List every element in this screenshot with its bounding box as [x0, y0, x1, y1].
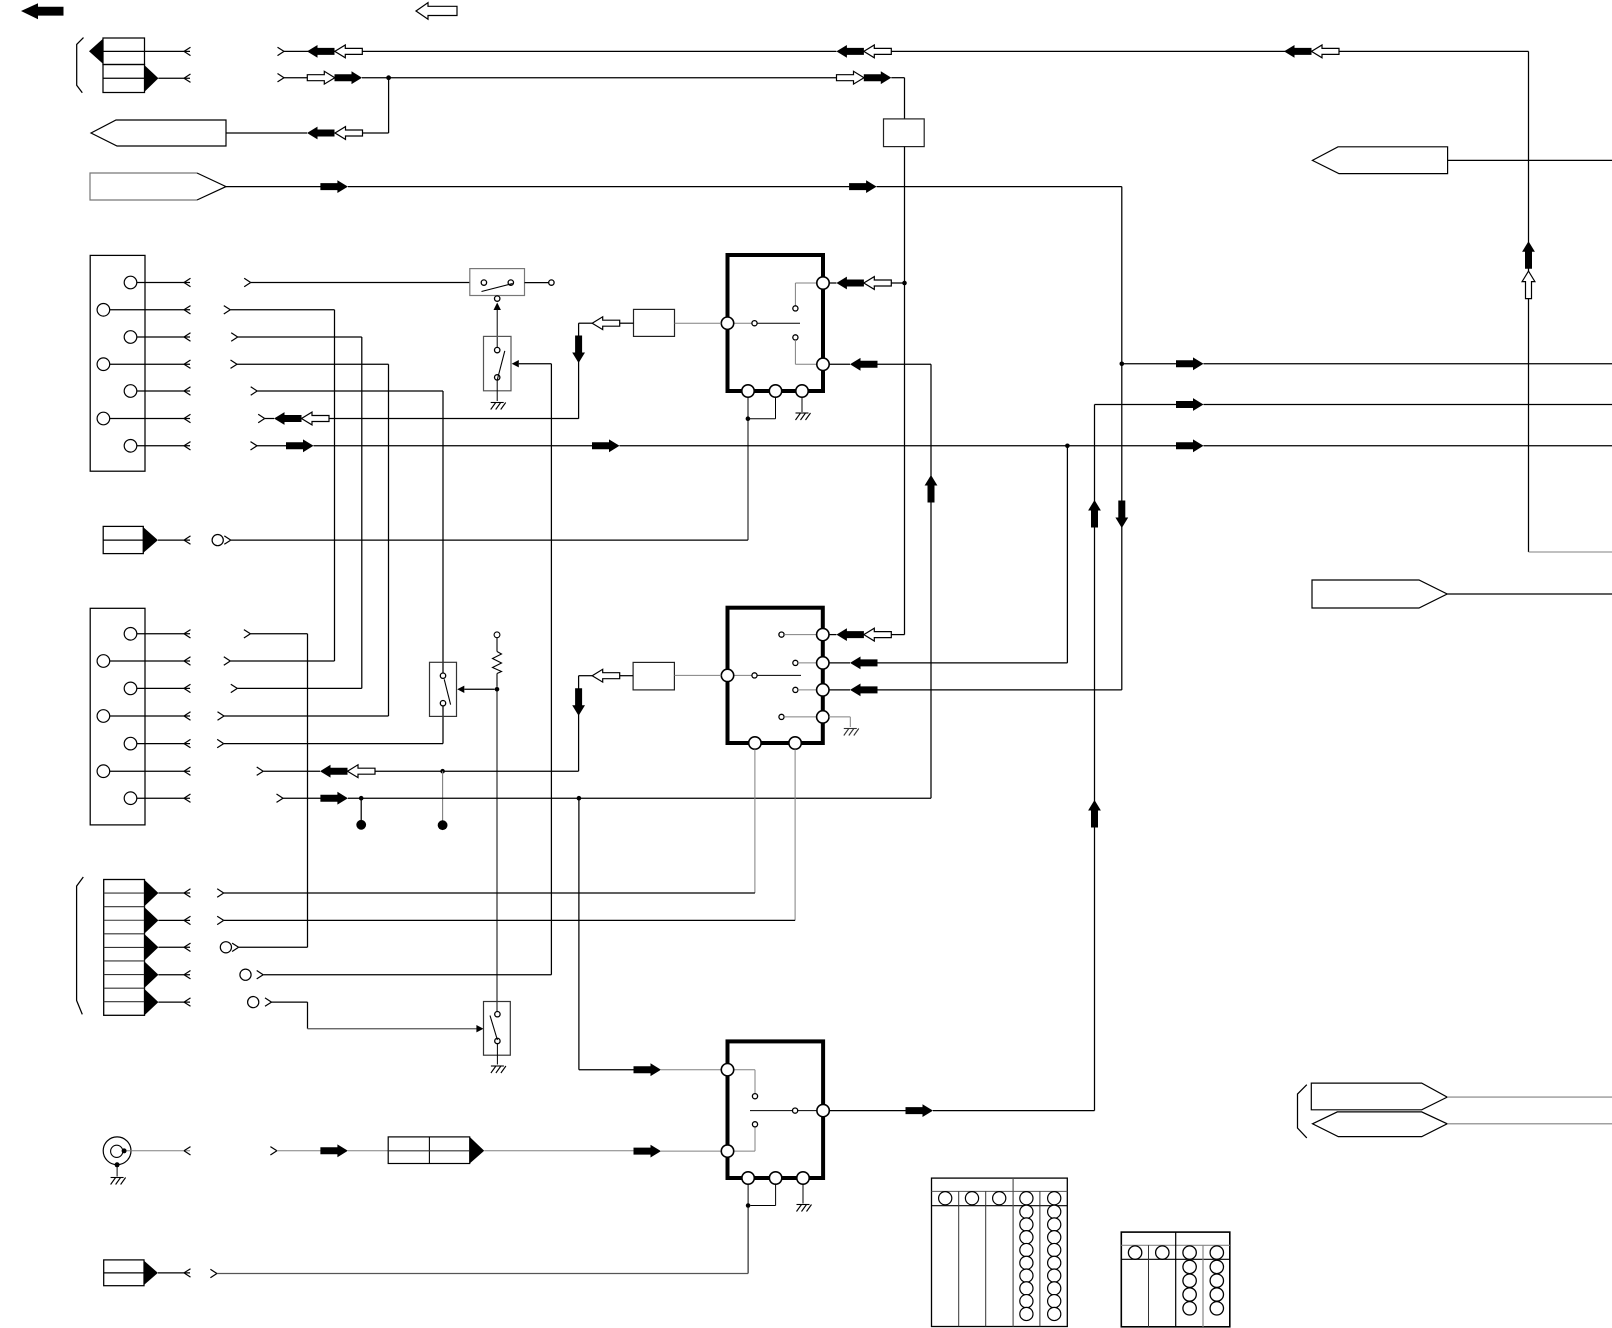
wire J2-6 from K1 input filter branch [258, 412, 578, 425]
off-page flow arrow (open, from next sheet) [416, 3, 457, 20]
pin table T1 [932, 1178, 1068, 1326]
relay K2 case [728, 608, 823, 743]
connector J5 (10-way, black wedges) [104, 880, 191, 1016]
connector bracket P5/P6 [1298, 1085, 1307, 1138]
ground at J6 [111, 1178, 126, 1185]
wire J2-5 via switch S4 to J3-5 [217, 387, 443, 748]
off-page flow arrow (solid, to previous sheet) [21, 3, 64, 19]
relay K3 contact internals [734, 1070, 817, 1151]
ground below S2 [491, 403, 506, 410]
wire column from F1 down to relay K2 pin 1 (node at K1 pin 1) [830, 147, 907, 641]
wire K3 coil pins to J8 [210, 1184, 775, 1278]
relay K2 pin 3 [817, 684, 829, 696]
wire P6 to sheet edge [1447, 1123, 1612, 1125]
wire S4 control from R1 node [457, 686, 499, 693]
wire K3 output to riser x1095 and row 404 [829, 398, 1612, 1117]
resistor R1 [493, 632, 502, 687]
wire P3 to sheet edge [1448, 159, 1612, 161]
filter box F2 (K1 input) [634, 309, 675, 336]
coax connector J6 [103, 1137, 131, 1177]
relay K1 pin 2 [817, 358, 829, 370]
wire J2-4 via bus to J3-4 [218, 360, 389, 720]
wire K2 coil pin B to big connector row 2 [217, 749, 795, 924]
pin table T2 [1121, 1232, 1230, 1327]
connector J1-A (to unit, black wedge left) [89, 38, 191, 65]
connector J1-B (from unit, black wedge right) [103, 65, 191, 93]
wire riser (J3-7 node) to relay K3 pin 1 [579, 798, 721, 1076]
ground at K2 pin 4 [829, 717, 859, 736]
wire K1 coil pins to supply node [746, 397, 776, 540]
ground at K1 pin G [796, 397, 811, 420]
wire J3-1 via bus to big connector row 3 [220, 630, 307, 953]
connector bracket J1 [77, 38, 84, 93]
relay K3 coil pins [742, 1172, 809, 1184]
wire S2 control from bus x551 [240, 360, 552, 980]
connector J8 (2-pin with wedge) [104, 1260, 191, 1286]
relay K2 coil pins [749, 737, 802, 749]
DC-DC box F3 (K2 input) [633, 662, 674, 690]
wire K2 coil pin A to big connector row 1 [217, 749, 755, 897]
relay K2 contact internals [734, 632, 817, 720]
relay K2 common pin [721, 669, 733, 681]
relay K2 pin 4 (gnd) [817, 711, 829, 723]
inline connector J7 (2-pin with wedge) [388, 1137, 484, 1164]
relay K1 pin 1 [817, 277, 829, 289]
wire F2 to K1 common [675, 322, 722, 324]
connector J3 (7-pin, mid left) [90, 608, 190, 825]
wire J3-6 from relay K2 aux (down-arrow branch) [257, 765, 579, 830]
wire P1 to node at top bus [226, 75, 391, 139]
relay K2 pin 2 [817, 657, 829, 669]
switch S2 (thermal contact to ground) [484, 336, 512, 401]
wire K2 pin2 to output node (row 446 branch) [829, 446, 1067, 670]
relay K3 case [728, 1041, 824, 1178]
wire P5 to sheet edge [1447, 1096, 1612, 1098]
wire into F3 (open arrow) from J3-6 riser [572, 669, 633, 771]
wire J2-2 via bus to J3-2 [224, 306, 335, 666]
connector bracket J5 [77, 877, 84, 1014]
switch S1 (relay contact, NO) [470, 269, 554, 302]
wire into F2 (open arrow) from J2-6 riser [572, 317, 633, 419]
ferrite/fuse box F1 [884, 119, 925, 147]
wire J6 to inline connector J7 [127, 1144, 389, 1157]
cable flag P1 (point-left) [91, 120, 226, 146]
wire R1 node down to switch S3 [496, 689, 498, 1011]
wire P4 to sheet edge [1447, 593, 1612, 595]
relay K1 case [728, 255, 824, 391]
wire J7 to relay K3 pin 2 [484, 1145, 721, 1158]
supply row to K1 coil (from J4) [158, 535, 748, 546]
relay K1 common pin [721, 317, 733, 329]
connector J2 (7-pin, upper left) [90, 255, 190, 471]
wire S1 actuator link (arrow up) [494, 303, 501, 348]
cable flag P6 (double point) [1313, 1112, 1448, 1137]
wire node K2-feed branch to sheet edge (row 364) [1122, 357, 1612, 370]
wire J2-3 via bus to J3-3 [231, 333, 362, 693]
relay K3 pin 2 [721, 1145, 733, 1157]
wire K1 pin1 arrows from node column [829, 277, 904, 290]
ground at K3 pin G [797, 1184, 812, 1211]
cable flag P3 (top right, point-left) [1312, 147, 1447, 174]
relay K3 pin 1 [721, 1064, 733, 1076]
wire row A (top net, to far right sheet edge) [278, 45, 1612, 552]
wire F3 to K2 common [674, 674, 721, 676]
wire J3-7 row (to K1 feed column) [277, 358, 938, 830]
wire J5-5 row to switch S3 [248, 997, 484, 1033]
cable flag P4 (point-right) [1312, 580, 1447, 608]
wire J2-7 output row (to K2 pin2 branch and sheet edge) [251, 439, 1612, 452]
relay K1 contact internals [734, 283, 824, 364]
relay K1 coil pins [742, 385, 808, 397]
ground below S3 [491, 1066, 506, 1073]
switch S3 (door switch to ground) [484, 1002, 511, 1065]
relay K3 output pin [817, 1104, 829, 1116]
switch S4 (inline in J2-5 bus) [430, 662, 457, 716]
wire row B (second net, down through ferrite into node column) [278, 71, 905, 119]
wire P2 feed to relay K2 pin 3 (long route right then down) [226, 180, 1128, 696]
wire J2-1 to switch S1 [244, 278, 470, 286]
connector J4 (2-pin with wedge) [103, 526, 158, 553]
cable flag P2 (point-right) [90, 173, 226, 200]
relay K2 pin 1 [817, 628, 829, 640]
cable flag P5 (point-right) [1311, 1083, 1447, 1110]
